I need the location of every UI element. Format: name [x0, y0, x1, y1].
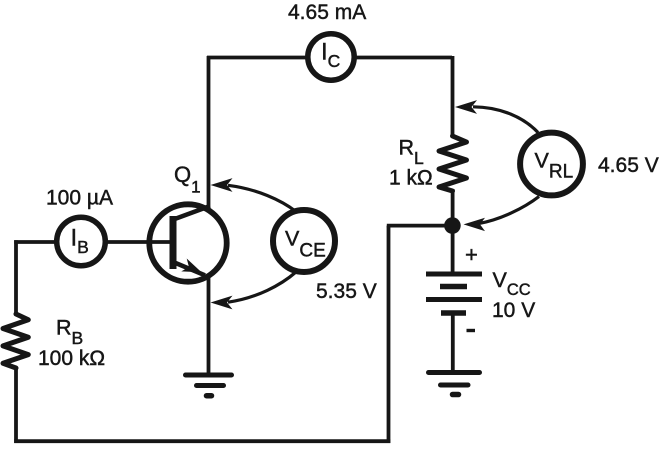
svg-text:5.35 V: 5.35 V — [316, 280, 377, 303]
voltmeter VRL arrow to top of RL (curve) — [473, 107, 538, 133]
battery VCC plate long top — [426, 272, 482, 277]
transistor Q1 emitter arrowhead — [181, 259, 201, 273]
svg-text:4.65 mA: 4.65 mA — [288, 1, 366, 24]
voltmeter VCE arrow to emitter (curve) — [228, 272, 296, 302]
battery VCC plate short — [440, 284, 467, 290]
wire left vertical lower — [14, 367, 18, 443]
voltmeter VRL arrow to node (curve) — [478, 197, 539, 224]
transistor Q1 emitter lead — [172, 262, 205, 276]
voltmeter VRL — [520, 133, 583, 196]
svg-text:+: + — [465, 242, 478, 267]
wire bottom horizontal — [14, 439, 390, 443]
wire right vertical upper — [451, 56, 455, 137]
battery VCC plate long — [426, 297, 482, 302]
battery VCC plate short bottom — [441, 310, 466, 316]
ground (emitter) — [186, 375, 232, 396]
battery VCC minus sign — [467, 329, 476, 332]
wire emitter vertical — [207, 276, 211, 374]
svg-text:1 kΩ: 1 kΩ — [389, 167, 433, 190]
resistor RL — [439, 136, 467, 191]
voltmeter VCE — [273, 210, 335, 272]
wire node horizontal — [387, 224, 452, 228]
wire top (collector to IC to RL) — [207, 56, 452, 60]
svg-text:4.65 V: 4.65 V — [598, 154, 659, 177]
svg-text:100 µA: 100 µA — [46, 187, 113, 210]
voltmeter VCE arrow to collector (curve) — [228, 185, 296, 211]
svg-text:RL: RL — [399, 136, 425, 168]
wire left vertical upper — [14, 240, 18, 315]
voltmeter VRL arrow to node (head) — [464, 218, 486, 231]
ammeter IB — [57, 217, 106, 266]
ground (battery) — [429, 373, 480, 395]
transistor Q1 base bar — [170, 216, 177, 269]
wire battery to ground — [451, 313, 455, 373]
svg-text:10 V: 10 V — [492, 299, 535, 322]
transistor Q1 circle — [149, 204, 226, 281]
transistor Q1 collector lead — [172, 206, 210, 220]
wire collector vertical — [207, 56, 211, 212]
ammeter IC — [308, 34, 354, 80]
svg-text:100 kΩ: 100 kΩ — [38, 347, 105, 370]
svg-text:Q1: Q1 — [174, 162, 201, 197]
voltmeter VRL arrow to top of RL (head) — [455, 100, 477, 114]
wire base horizontal — [14, 240, 172, 244]
svg-text:VCC: VCC — [493, 268, 531, 299]
voltmeter VCE arrow to emitter (head) — [211, 296, 233, 310]
wire mid vertical — [387, 226, 391, 443]
node junction dot — [444, 217, 461, 234]
wire right vertical RL-to-battery — [451, 189, 455, 275]
resistor RB — [3, 314, 28, 368]
svg-text:RB: RB — [56, 316, 83, 349]
voltmeter VCE arrow to collector (head) — [211, 178, 233, 192]
